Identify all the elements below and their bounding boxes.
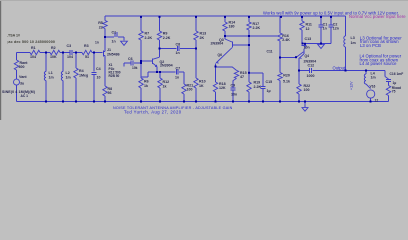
svg-text:R4: R4 (79, 69, 84, 73)
svg-text:12: 12 (375, 99, 379, 103)
svg-text:Normal Vcc power input here: Normal Vcc power input here (349, 14, 406, 19)
svg-text:AC 1: AC 1 (21, 94, 29, 98)
svg-text:Vant: Vant (19, 75, 27, 79)
svg-text:3u: 3u (20, 81, 24, 85)
svg-text:5.1k: 5.1k (283, 79, 290, 83)
svg-text:1Meg: 1Meg (79, 74, 88, 78)
svg-text:1n: 1n (323, 27, 327, 31)
svg-text:2.2K: 2.2K (253, 26, 261, 30)
svg-text:C13: C13 (305, 37, 312, 41)
svg-text:100: 100 (304, 88, 310, 92)
svg-text:C15: C15 (266, 80, 273, 84)
svg-text:1k: 1k (144, 84, 148, 88)
svg-text:104: 104 (30, 55, 36, 59)
svg-text:C12: C12 (308, 64, 315, 68)
svg-text:10: 10 (97, 76, 101, 80)
svg-text:300: 300 (19, 65, 25, 69)
svg-text:2.2K: 2.2K (163, 36, 171, 40)
svg-text:Q6: Q6 (218, 53, 223, 57)
svg-text:2N5486: 2N5486 (107, 52, 120, 56)
svg-text:C16 1mF: C16 1mF (390, 72, 404, 76)
svg-text:L3 on PCB: L3 on PCB (360, 43, 381, 48)
svg-text:1n: 1n (176, 51, 180, 55)
svg-text:180: 180 (229, 25, 235, 29)
svg-text:1k: 1k (163, 84, 167, 88)
svg-text:C6: C6 (128, 57, 133, 61)
svg-text:+12V: +12V (350, 81, 354, 90)
svg-text:12n: 12n (333, 27, 339, 31)
svg-text:C11: C11 (267, 49, 273, 53)
svg-text:2N3904: 2N3904 (211, 41, 224, 45)
svg-text:1n: 1n (112, 40, 116, 44)
svg-text:12K: 12K (219, 86, 226, 90)
svg-text:100: 100 (187, 88, 193, 92)
svg-text:Ted Yurtch, Aug 27, 2020: Ted Yurtch, Aug 27, 2020 (124, 109, 182, 114)
svg-text:1n: 1n (95, 40, 99, 44)
svg-text:51: 51 (85, 55, 89, 59)
svg-text:V16: V16 (370, 84, 376, 88)
svg-text:2.4K: 2.4K (282, 38, 290, 42)
svg-text:R2B 50: R2B 50 (109, 74, 120, 78)
svg-text:75: 75 (392, 90, 396, 94)
svg-text:R20: R20 (283, 73, 290, 77)
svg-text:1m: 1m (66, 75, 71, 79)
svg-text:1n: 1n (175, 76, 179, 80)
svg-text:C8: C8 (176, 43, 181, 47)
svg-text:12: 12 (306, 27, 310, 31)
svg-text:.TSA 1#: .TSA 1# (7, 33, 20, 37)
svg-text:56: 56 (108, 91, 112, 95)
svg-text:;ac dec 500 10 245000000: ;ac dec 500 10 245000000 (7, 40, 55, 44)
svg-text:2K: 2K (200, 36, 205, 40)
svg-text:Output: Output (333, 65, 346, 70)
svg-text:22: 22 (99, 25, 103, 29)
svg-text:10n: 10n (231, 93, 237, 97)
svg-text:2N3904: 2N3904 (160, 63, 173, 67)
svg-text:10n: 10n (304, 45, 310, 49)
svg-text:R2: R2 (51, 46, 56, 50)
svg-text:1µ: 1µ (267, 89, 271, 93)
svg-text:1000: 1000 (307, 74, 315, 78)
svg-text:1µ: 1µ (393, 81, 397, 85)
svg-text:L4 at power source: L4 at power source (360, 61, 398, 66)
svg-text:2.2K: 2.2K (254, 85, 262, 89)
svg-text:1m: 1m (49, 75, 54, 79)
svg-text:2.2K: 2.2K (145, 36, 153, 40)
svg-text:R1: R1 (31, 46, 36, 50)
svg-text:104: 104 (67, 55, 73, 59)
svg-text:R3: R3 (84, 44, 89, 48)
svg-text:10k: 10k (132, 66, 138, 70)
svg-text:Q4: Q4 (305, 54, 310, 58)
svg-text:1m: 1m (351, 41, 356, 45)
svg-text:1m: 1m (371, 76, 376, 80)
svg-text:SINE(0 4 1M(M)(M): SINE(0 4 1M(M)(M) (2, 90, 36, 94)
svg-text:C7: C7 (176, 66, 181, 70)
svg-text:C9: C9 (231, 84, 236, 88)
svg-text:10K: 10K (50, 55, 57, 59)
svg-text:C3: C3 (67, 44, 72, 48)
svg-text:C1: C1 (112, 30, 117, 34)
svg-text:1K: 1K (199, 84, 204, 88)
svg-text:L3: L3 (351, 36, 355, 40)
svg-text:47: 47 (240, 75, 244, 79)
svg-text:C4: C4 (96, 67, 101, 71)
